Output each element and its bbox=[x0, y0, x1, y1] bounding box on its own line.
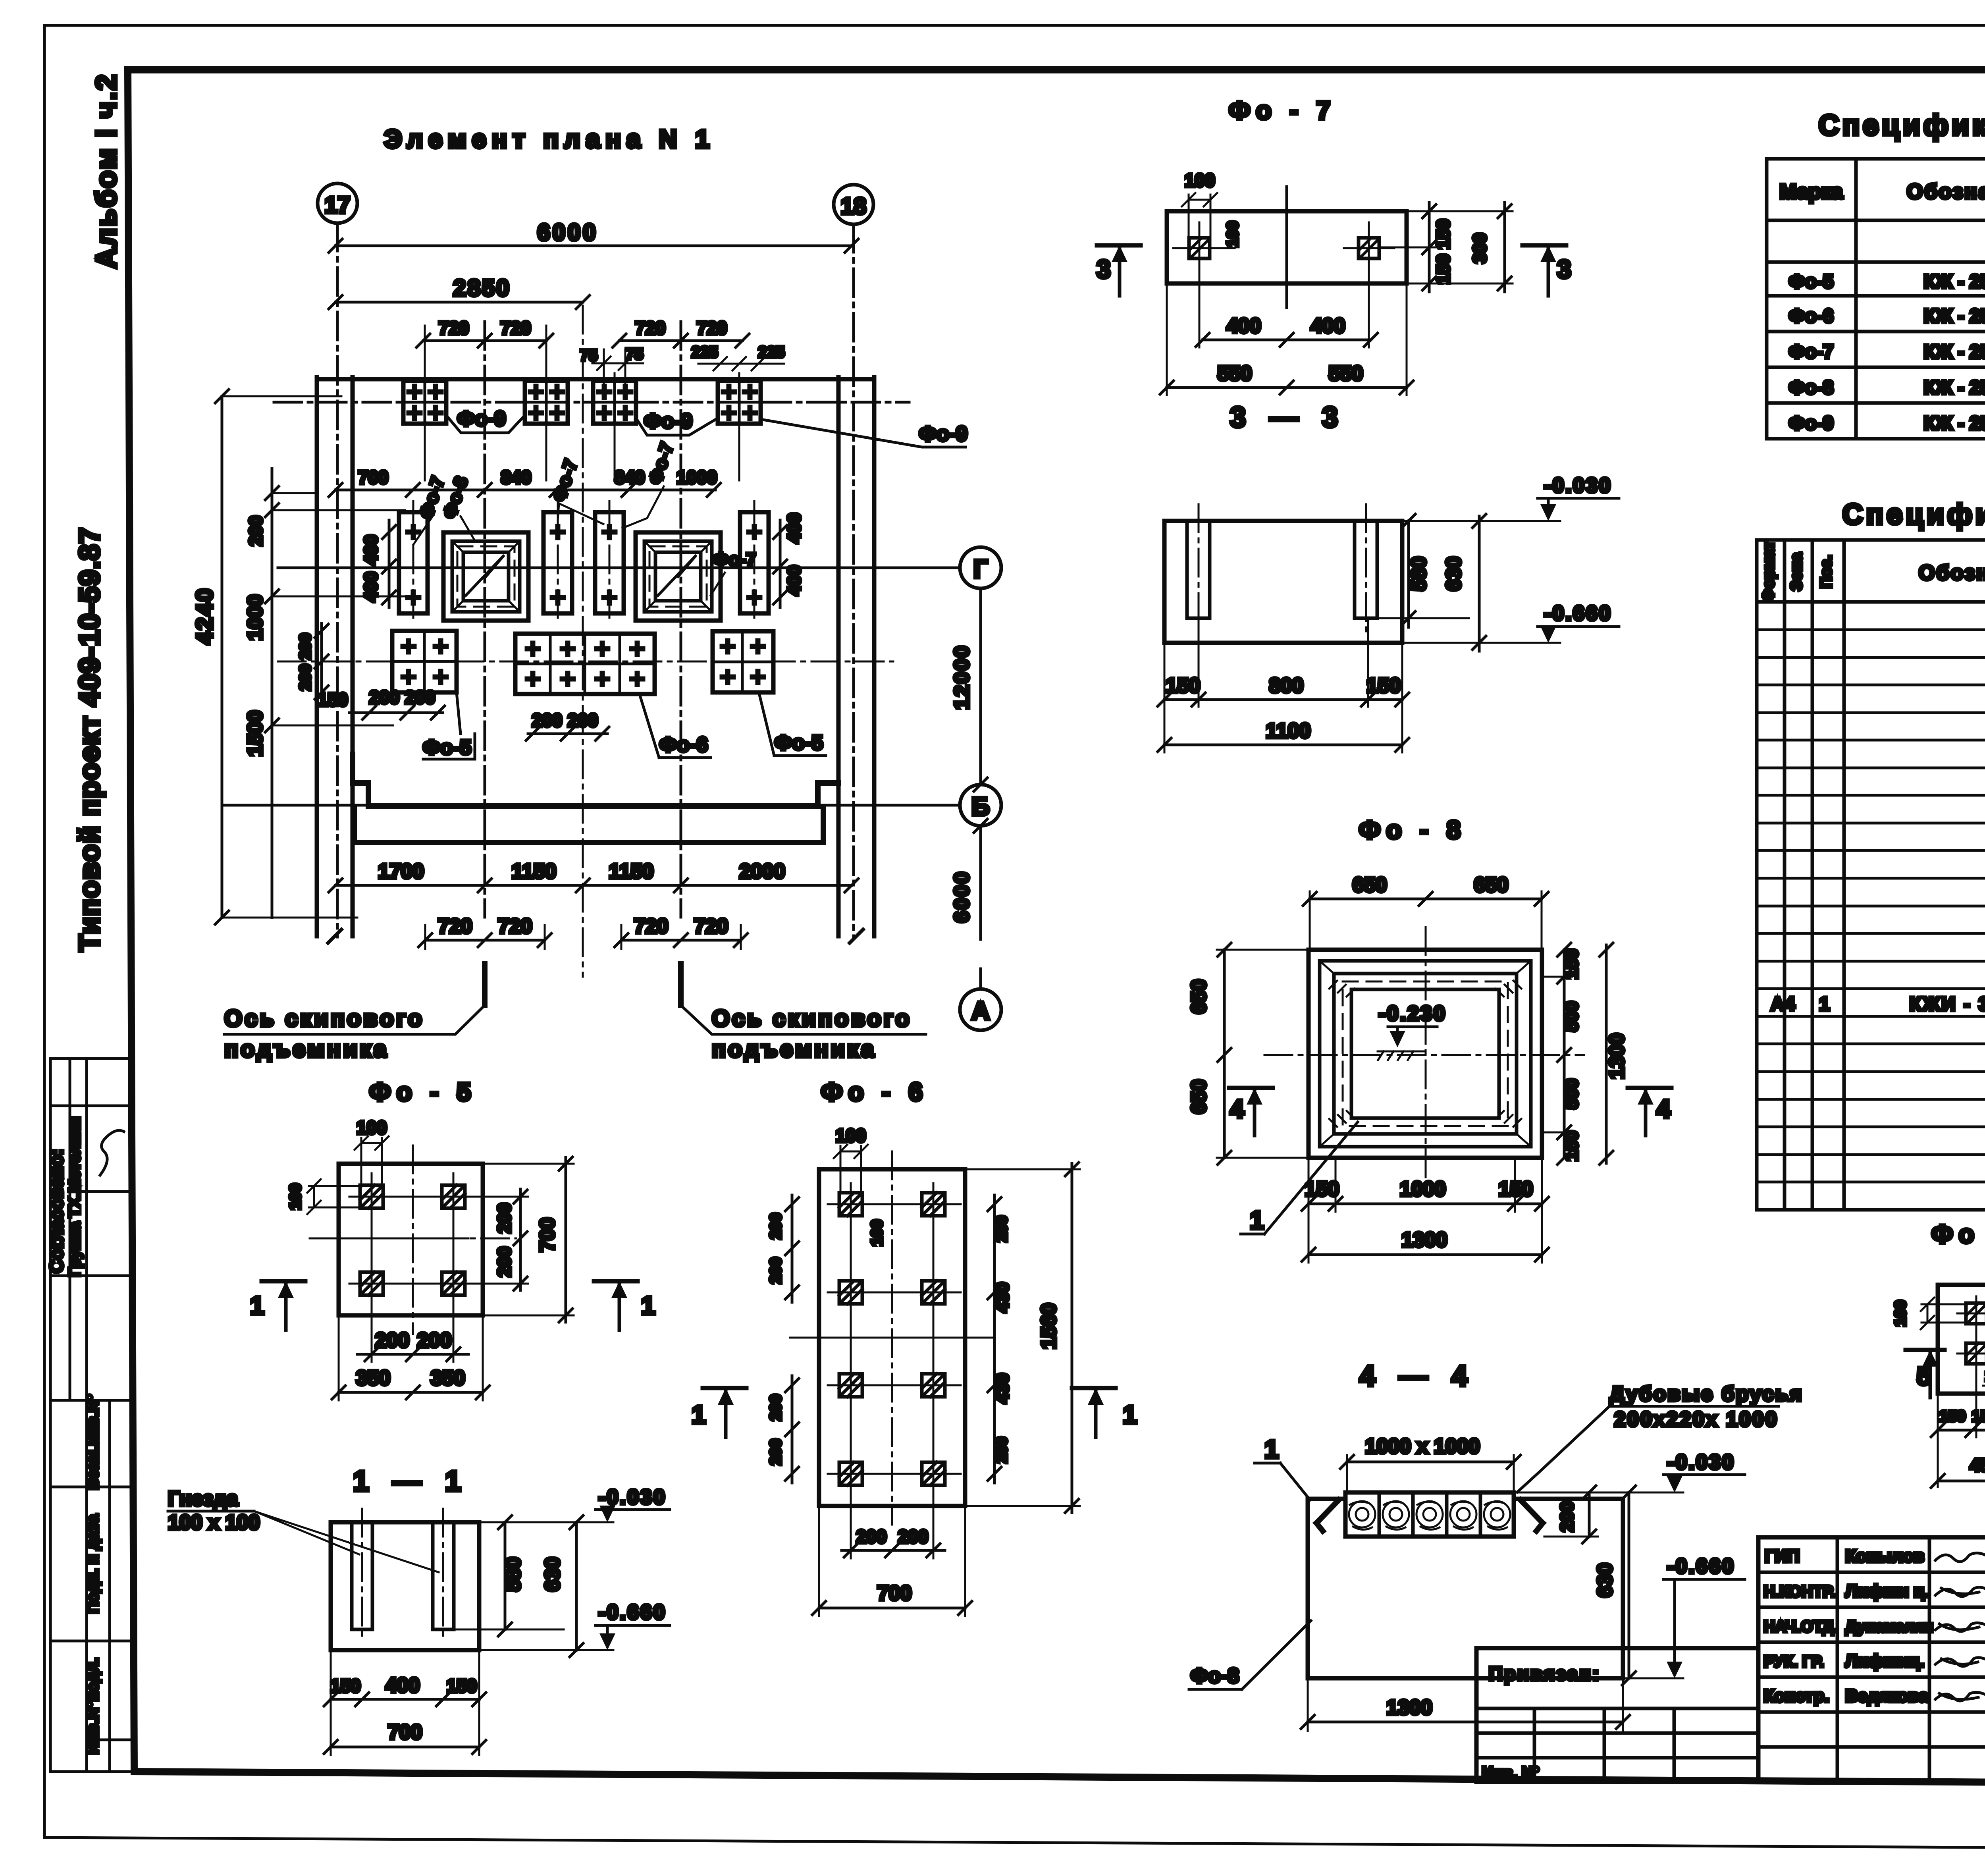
svg-text:150: 150 bbox=[1499, 1178, 1533, 1201]
left wall bbox=[315, 377, 319, 936]
body rect bbox=[1164, 521, 1402, 643]
svg-text:100: 100 bbox=[1224, 221, 1241, 248]
svg-text:Б: Б bbox=[971, 792, 990, 821]
svg-text:4 — 4: 4 — 4 bbox=[1359, 1360, 1475, 1392]
center lines bbox=[412, 1145, 414, 1334]
svg-text:ГИП: ГИП bbox=[1765, 1546, 1800, 1566]
slot right bbox=[1355, 521, 1377, 618]
svg-text:700: 700 bbox=[388, 1721, 422, 1744]
svg-text:Фо-8: Фо-8 bbox=[1789, 377, 1834, 398]
svg-text:1100: 1100 bbox=[1266, 719, 1311, 742]
dim 630 rotated bbox=[1628, 1492, 1630, 1678]
svg-text:580: 580 bbox=[502, 1557, 525, 1592]
svg-text:630: 630 bbox=[541, 1557, 564, 1592]
svg-text:подъемника: подъемника bbox=[712, 1036, 876, 1062]
axis circle 18 bbox=[834, 185, 873, 224]
svg-text:630: 630 bbox=[1594, 1563, 1617, 1598]
slot left bbox=[352, 1522, 372, 1629]
svg-text:800: 800 bbox=[1269, 674, 1304, 697]
svg-text:Подп. и дата: Подп. и дата bbox=[84, 1514, 102, 1613]
svg-text:580: 580 bbox=[1407, 557, 1430, 591]
svg-text:200: 200 bbox=[417, 1329, 452, 1352]
svg-text:200: 200 bbox=[767, 1439, 784, 1465]
skip hoist axis mark 2 bbox=[678, 964, 684, 1005]
svg-text:3 — 3: 3 — 3 bbox=[1230, 401, 1346, 433]
svg-text:4: 4 bbox=[1230, 1095, 1244, 1123]
svg-text:300: 300 bbox=[1469, 233, 1490, 264]
Фо-8 block 1 bbox=[443, 532, 528, 621]
svg-text:200: 200 bbox=[767, 1257, 784, 1284]
axis circle А bbox=[960, 989, 1001, 1030]
svg-text:17: 17 bbox=[325, 192, 351, 218]
svg-text:Фо-9: Фо-9 bbox=[457, 407, 506, 430]
wall square bbox=[1320, 961, 1531, 1147]
svg-text:Фо-6: Фо-6 bbox=[659, 733, 708, 756]
svg-text:Альбом I ч.2: Альбом I ч.2 bbox=[91, 73, 122, 269]
concrete block outline bbox=[1308, 1499, 1623, 1678]
svg-text:450: 450 bbox=[1970, 1455, 1985, 1475]
section mark 1 left bbox=[703, 1386, 746, 1390]
dim 700 right rotated bbox=[565, 1157, 567, 1322]
dims 150/150 right bbox=[1428, 202, 1431, 292]
section mark 1 right bbox=[594, 1279, 638, 1284]
svg-text:430: 430 bbox=[992, 1373, 1012, 1404]
dim column 200/1000/1500 bbox=[271, 469, 274, 918]
dims 650/650 left bbox=[1223, 950, 1226, 1158]
svg-text:Фо-9: Фо-9 bbox=[644, 410, 692, 433]
svg-text:400: 400 bbox=[784, 513, 804, 544]
svg-text:430: 430 bbox=[992, 1282, 1012, 1313]
skip axis 1 dash-dot bbox=[484, 322, 486, 917]
svg-text:А4: А4 bbox=[1771, 994, 1795, 1015]
signature squiggle bbox=[100, 1130, 124, 1175]
dim 100 top bbox=[840, 1151, 861, 1153]
svg-text:Метелкин: Метелкин bbox=[66, 1116, 83, 1192]
wall bottom ticks bbox=[328, 929, 341, 943]
svg-text:1000: 1000 bbox=[1400, 1178, 1446, 1201]
timber row bbox=[1345, 1492, 1514, 1537]
svg-text:720: 720 bbox=[498, 915, 532, 938]
Фо-6 block (plan) bbox=[515, 634, 655, 694]
anchor hook right bbox=[1521, 1500, 1543, 1531]
svg-text:200х220х 1000: 200х220х 1000 bbox=[1614, 1408, 1779, 1431]
Привязан box bbox=[1476, 1648, 1758, 1782]
section mark 3 left bbox=[1097, 243, 1141, 248]
svg-text:Фо-6: Фо-6 bbox=[1789, 306, 1834, 327]
svg-text:КЖИ - 39. 00. 0: КЖИ - 39. 00. 0 bbox=[1910, 994, 1985, 1015]
svg-text:720: 720 bbox=[634, 915, 669, 938]
svg-text:12000: 12000 bbox=[950, 644, 973, 710]
row axis through Фо-5/Фо-6 bbox=[278, 661, 893, 663]
svg-text:200: 200 bbox=[532, 710, 563, 731]
svg-text:400: 400 bbox=[385, 1674, 420, 1697]
svg-text:Марка: Марка bbox=[1779, 180, 1843, 203]
svg-text:150: 150 bbox=[1561, 949, 1582, 979]
sockets 8x bbox=[839, 1193, 862, 1216]
svg-text:150: 150 bbox=[1972, 1407, 1985, 1425]
svg-text:1560: 1560 bbox=[1037, 1303, 1060, 1349]
dim 720/720 bottom right bbox=[621, 939, 741, 942]
svg-text:Копылов: Копылов bbox=[1845, 1546, 1924, 1566]
svg-text:Гнезда: Гнезда bbox=[168, 1487, 238, 1510]
svg-text:840: 840 bbox=[501, 467, 532, 488]
dim 450 bottom bbox=[1938, 1480, 1985, 1483]
svg-text:Ось скипового: Ось скипового bbox=[224, 1006, 424, 1032]
dim 100 bbox=[1189, 199, 1210, 201]
svg-text:Фо-5: Фо-5 bbox=[1789, 271, 1834, 292]
dims 200/200 below Фо-6 bbox=[528, 733, 607, 735]
section mark 4 left bbox=[1229, 1086, 1273, 1090]
svg-text:350: 350 bbox=[356, 1367, 391, 1390]
svg-text:1500: 1500 bbox=[244, 710, 267, 756]
svg-text:720: 720 bbox=[635, 318, 666, 338]
plan horizontal axis through Фо-9 row bbox=[274, 401, 909, 404]
dims 150/1000/150 bottom bbox=[1309, 1203, 1542, 1205]
Фо-7 block 3 bbox=[595, 501, 624, 624]
title block signature table bbox=[1758, 1537, 1985, 1782]
axis circle Г bbox=[960, 547, 1001, 588]
axis link line Г-Б-А bbox=[979, 588, 982, 785]
svg-text:840: 840 bbox=[615, 467, 645, 488]
dim 4240 vertical bbox=[221, 396, 224, 918]
svg-text:700: 700 bbox=[877, 1582, 912, 1605]
svg-text:200: 200 bbox=[1557, 1502, 1577, 1532]
svg-text:150: 150 bbox=[1366, 674, 1401, 697]
Фо-7 block 1 bbox=[399, 501, 428, 624]
svg-text:КЖ - 25: КЖ - 25 bbox=[1924, 306, 1985, 327]
svg-text:КЖ - 25: КЖ - 25 bbox=[1924, 377, 1985, 398]
svg-text:100: 100 bbox=[357, 1117, 387, 1138]
svg-text:Лифши ц.: Лифши ц. bbox=[1845, 1581, 1929, 1601]
top boundary line bbox=[317, 377, 874, 382]
Фо-9 square 4 bbox=[718, 381, 761, 424]
svg-text:Инв. N°: Инв. N° bbox=[1482, 1764, 1540, 1782]
svg-text:Обозначение: Обозначение bbox=[1919, 561, 1985, 584]
section mark 4 right bbox=[1628, 1086, 1671, 1090]
svg-text:1: 1 bbox=[1250, 1206, 1264, 1234]
svg-text:200: 200 bbox=[993, 1216, 1010, 1242]
body square bbox=[1938, 1285, 1985, 1394]
svg-text:650: 650 bbox=[1187, 979, 1210, 1014]
svg-text:-0.030: -0.030 bbox=[1544, 474, 1612, 497]
dims 350/350 bbox=[339, 1391, 483, 1394]
dim 100 left rotated bbox=[1927, 1304, 1929, 1323]
svg-text:Поз.: Поз. bbox=[1817, 555, 1835, 588]
svg-text:Ведякова: Ведякова bbox=[1845, 1686, 1929, 1706]
body rect bbox=[331, 1522, 479, 1650]
dim 400/400 left of block row bbox=[388, 520, 391, 607]
Фо-9 square 1 bbox=[403, 381, 446, 424]
dim row 700/840/840/1000 bbox=[335, 489, 715, 492]
svg-text:1: 1 bbox=[641, 1291, 655, 1320]
svg-text:Фо-7: Фо-7 bbox=[1789, 341, 1834, 362]
dim 1300 bottom bbox=[1309, 1253, 1542, 1256]
dim 580 bbox=[1407, 521, 1410, 627]
svg-text:Фо-5: Фо-5 bbox=[775, 731, 823, 754]
dims 150/400/150 bbox=[331, 1698, 479, 1701]
Фо-9 square 2 bbox=[525, 381, 568, 424]
svg-text:Спецификация к элементу пла: Спецификация к элементу плана N 1 bbox=[1819, 110, 1985, 141]
skip hoist axis mark 1 bbox=[482, 964, 488, 1005]
svg-text:КЖ - 25: КЖ - 25 bbox=[1924, 271, 1985, 292]
section mark 1 left bbox=[262, 1279, 305, 1284]
dims 150/500/500/150 right bbox=[1563, 950, 1566, 1158]
svg-text:Обозначение: Обозначение bbox=[1907, 180, 1985, 203]
signatures squiggles bbox=[1935, 1553, 1985, 1562]
table 1 grid bbox=[1767, 159, 1985, 439]
svg-text:150: 150 bbox=[1433, 219, 1453, 250]
svg-text:Ось скипового: Ось скипового bbox=[712, 1006, 912, 1032]
dims 150/800/150 bbox=[1164, 698, 1402, 701]
svg-text:200: 200 bbox=[767, 1213, 784, 1240]
svg-text:Элемент плана N 1: Элемент плана N 1 bbox=[384, 125, 715, 153]
svg-text:-0.030: -0.030 bbox=[598, 1486, 666, 1509]
svg-text:-0.030: -0.030 bbox=[1667, 1451, 1735, 1474]
svg-text:150: 150 bbox=[1433, 254, 1453, 285]
svg-text:Привязан:: Привязан: bbox=[1489, 1664, 1600, 1685]
pit outline bottom at Б bbox=[368, 803, 818, 809]
svg-text:-0.230: -0.230 bbox=[1378, 1002, 1446, 1025]
dim 100 top bbox=[361, 1142, 382, 1144]
lower pit outline bbox=[355, 807, 823, 843]
dim 720/720 bottom left bbox=[425, 939, 545, 942]
svg-text:6000: 6000 bbox=[950, 870, 973, 923]
dims 150/200/200 below Фо-5 left bbox=[349, 711, 443, 714]
svg-text:Фо-9: Фо-9 bbox=[919, 422, 967, 445]
svg-text:КЖ - 25: КЖ - 25 bbox=[1924, 341, 1985, 362]
svg-text:500: 500 bbox=[1561, 1001, 1582, 1032]
axis circle 17 bbox=[318, 183, 357, 223]
svg-text:1: 1 bbox=[1264, 1435, 1279, 1463]
svg-text:200: 200 bbox=[767, 1394, 784, 1421]
svg-text:1: 1 bbox=[1819, 994, 1830, 1015]
svg-text:100 x 100: 100 x 100 bbox=[168, 1511, 260, 1534]
dim 200/200 left of Фо-5 bbox=[320, 623, 323, 699]
svg-text:200: 200 bbox=[375, 1329, 410, 1352]
svg-text:подъемника: подъемника bbox=[224, 1036, 389, 1062]
axis 17 line bbox=[336, 223, 339, 937]
axis 18 line bbox=[852, 224, 855, 937]
svg-text:100: 100 bbox=[287, 1184, 304, 1210]
corner hatches bbox=[1329, 981, 1521, 1127]
svg-text:200: 200 bbox=[297, 633, 314, 660]
svg-text:НАЧ.ОТД.: НАЧ.ОТД. bbox=[1763, 1618, 1838, 1635]
svg-text:200: 200 bbox=[369, 687, 400, 708]
svg-text:700: 700 bbox=[536, 1218, 559, 1252]
body square bbox=[339, 1164, 483, 1315]
svg-text:1000 х 1000: 1000 х 1000 bbox=[1365, 1435, 1480, 1458]
svg-text:720: 720 bbox=[694, 915, 728, 938]
svg-text:150: 150 bbox=[447, 1675, 477, 1696]
dim 400/400 right of block row bbox=[779, 520, 782, 607]
svg-text:1300: 1300 bbox=[1605, 1033, 1628, 1079]
svg-text:1000: 1000 bbox=[676, 467, 717, 488]
slot left bbox=[1187, 521, 1210, 618]
sockets bbox=[360, 1185, 383, 1208]
svg-text:Фо - 9: Фо - 9 bbox=[1931, 1220, 1985, 1248]
svg-text:150: 150 bbox=[1939, 1407, 1966, 1425]
dims 200/200 bottom bbox=[842, 1549, 945, 1552]
dim 700 bbox=[331, 1746, 479, 1749]
svg-text:1 — 1: 1 — 1 bbox=[353, 1465, 469, 1497]
svg-text:400: 400 bbox=[1227, 314, 1261, 337]
svg-text:-0.660: -0.660 bbox=[1667, 1555, 1735, 1578]
dim 2850 bbox=[335, 301, 583, 304]
wood grain bbox=[1349, 1501, 1510, 1530]
svg-text:650: 650 bbox=[1353, 873, 1387, 897]
dim 550/550 bbox=[1167, 386, 1407, 389]
svg-text:Дунамалян: Дунамалян bbox=[1845, 1618, 1933, 1635]
bevel square bbox=[1334, 974, 1517, 1134]
svg-text:150: 150 bbox=[330, 1675, 361, 1696]
svg-text:200: 200 bbox=[494, 1203, 515, 1234]
svg-text:225: 225 bbox=[758, 343, 785, 361]
slot right bbox=[433, 1522, 454, 1629]
svg-text:150: 150 bbox=[1166, 674, 1201, 697]
Фо-7 block 2 bbox=[543, 501, 572, 624]
svg-text:Фо - 7: Фо - 7 bbox=[1229, 96, 1336, 125]
inner opening bbox=[1351, 989, 1499, 1118]
svg-text:Дубовые брусья: Дубовые брусья bbox=[1609, 1382, 1803, 1406]
socket right bbox=[1359, 238, 1379, 258]
dim 1300 bbox=[1308, 1721, 1623, 1724]
anchor hook left bbox=[1316, 1500, 1339, 1531]
svg-text:1300: 1300 bbox=[1386, 1696, 1432, 1719]
svg-text:630: 630 bbox=[1442, 557, 1465, 591]
dim row 1700/1150/1150/2000 bbox=[335, 884, 852, 887]
svg-text:2000: 2000 bbox=[739, 860, 785, 883]
svg-text:Фо-5: Фо-5 bbox=[423, 736, 471, 759]
svg-text:100: 100 bbox=[1892, 1300, 1909, 1327]
dims 200/200 right rotated bbox=[519, 1189, 522, 1290]
pit outline step left bbox=[353, 754, 368, 806]
Фо-8 block 2 bbox=[636, 532, 721, 621]
right wall bbox=[836, 377, 841, 936]
dim 1300 right bbox=[1605, 945, 1608, 1163]
svg-text:400: 400 bbox=[360, 572, 381, 602]
Фо-9 square 3 bbox=[593, 381, 636, 424]
svg-text:5: 5 bbox=[1917, 1362, 1931, 1390]
svg-text:Согласовано:: Согласовано: bbox=[46, 1149, 67, 1273]
svg-text:100: 100 bbox=[1185, 170, 1215, 191]
dim 650/650 top bbox=[1310, 898, 1542, 900]
svg-text:Фо-8: Фо-8 bbox=[1191, 1664, 1239, 1687]
svg-text:Спецификация к фундаментам: Спецификация к фундаментам bbox=[1842, 499, 1985, 530]
svg-text:Констр.: Констр. bbox=[1763, 1686, 1829, 1706]
plate rect bbox=[1167, 211, 1407, 283]
svg-text:Фо-9: Фо-9 bbox=[1789, 413, 1834, 434]
svg-text:Взам.инв.N°: Взам.инв.N° bbox=[84, 1394, 102, 1490]
svg-text:350: 350 bbox=[431, 1367, 465, 1390]
center lines bbox=[891, 1151, 893, 1525]
left margin stamp strip bbox=[50, 1059, 133, 1772]
dims 200/200 left top bbox=[791, 1195, 794, 1302]
svg-text:550: 550 bbox=[1218, 362, 1252, 385]
Фо-7 block 4 bbox=[740, 501, 769, 624]
svg-text:1: 1 bbox=[692, 1400, 706, 1429]
svg-text:200: 200 bbox=[898, 1526, 929, 1547]
thin verticals from dims through squares bbox=[424, 326, 426, 480]
section mark 5 left bbox=[1906, 1348, 1945, 1352]
svg-text:225: 225 bbox=[692, 343, 718, 361]
pit outline step right bbox=[818, 783, 838, 806]
svg-text:Фо - 6: Фо - 6 bbox=[821, 1078, 928, 1106]
svg-text:1150: 1150 bbox=[609, 860, 654, 883]
center axis dash-dot bbox=[582, 306, 584, 977]
dim 700 bottom bbox=[819, 1607, 965, 1610]
dim 630 bbox=[575, 1522, 578, 1650]
dim 720 720 right bbox=[619, 339, 742, 342]
svg-text:4: 4 bbox=[1656, 1095, 1671, 1123]
svg-text:200: 200 bbox=[297, 664, 314, 691]
svg-text:200: 200 bbox=[405, 687, 436, 708]
dim 100 left rotated bbox=[313, 1186, 315, 1207]
table 2 grid bbox=[1757, 540, 1985, 1210]
svg-text:-0.660: -0.660 bbox=[598, 1601, 666, 1624]
dim 630 bbox=[1478, 516, 1481, 651]
svg-text:200: 200 bbox=[993, 1437, 1010, 1463]
Фо-5 block right (plan) bbox=[713, 631, 773, 692]
svg-text:720: 720 bbox=[438, 915, 472, 938]
socket left bbox=[1189, 238, 1210, 258]
svg-text:Зона: Зона bbox=[1788, 552, 1805, 591]
section mark 1 right bbox=[1072, 1386, 1116, 1390]
svg-text:1: 1 bbox=[1123, 1400, 1137, 1429]
dims 200/200 left bottom bbox=[791, 1376, 794, 1483]
svg-text:200: 200 bbox=[245, 516, 266, 546]
svg-text:Инв.N°подл.: Инв.N°подл. bbox=[84, 1658, 102, 1754]
svg-text:550: 550 bbox=[1329, 362, 1363, 385]
svg-text:650: 650 bbox=[1474, 873, 1509, 897]
dim 200 rotated bbox=[1588, 1492, 1591, 1537]
svg-text:Лифшиц.: Лифшиц. bbox=[1845, 1651, 1924, 1671]
svg-text:200: 200 bbox=[568, 710, 598, 731]
axis Б line bbox=[222, 804, 960, 807]
svg-text:Формат: Формат bbox=[1760, 541, 1777, 602]
svg-text:500: 500 bbox=[1561, 1079, 1582, 1109]
axis circle Б bbox=[960, 785, 1001, 826]
dims 200/200 bottom bbox=[357, 1353, 468, 1356]
svg-text:700: 700 bbox=[358, 467, 389, 488]
svg-text:А: А bbox=[971, 997, 990, 1025]
svg-text:400: 400 bbox=[360, 535, 381, 565]
svg-text:РУК. ГР.: РУК. ГР. bbox=[1763, 1653, 1824, 1670]
svg-text:720: 720 bbox=[697, 318, 727, 338]
svg-text:400: 400 bbox=[1311, 314, 1345, 337]
svg-text:Фо-7: Фо-7 bbox=[713, 549, 756, 570]
svg-text:Н.КОНТР.: Н.КОНТР. bbox=[1763, 1583, 1835, 1600]
svg-text:1: 1 bbox=[250, 1291, 264, 1320]
svg-text:150: 150 bbox=[1561, 1131, 1582, 1161]
dim 225 225 bbox=[698, 363, 784, 365]
svg-text:-0.660: -0.660 bbox=[1544, 602, 1612, 625]
svg-text:150: 150 bbox=[318, 689, 348, 710]
svg-text:720: 720 bbox=[501, 318, 531, 338]
Фо-5 block left (plan) bbox=[392, 631, 457, 692]
svg-text:100: 100 bbox=[868, 1220, 886, 1246]
dim 6000 bbox=[335, 245, 852, 247]
svg-text:1300: 1300 bbox=[1401, 1228, 1447, 1251]
skip axis 2 dash-dot bbox=[680, 322, 682, 917]
center line bbox=[1285, 187, 1288, 308]
svg-text:2850: 2850 bbox=[453, 275, 511, 301]
svg-text:75: 75 bbox=[626, 345, 644, 363]
svg-text:3: 3 bbox=[1097, 255, 1111, 283]
svg-text:1150: 1150 bbox=[512, 860, 557, 883]
outer square bbox=[1309, 950, 1542, 1158]
svg-text:6000: 6000 bbox=[537, 220, 598, 245]
svg-text:Фо - 8: Фо - 8 bbox=[1359, 816, 1466, 844]
